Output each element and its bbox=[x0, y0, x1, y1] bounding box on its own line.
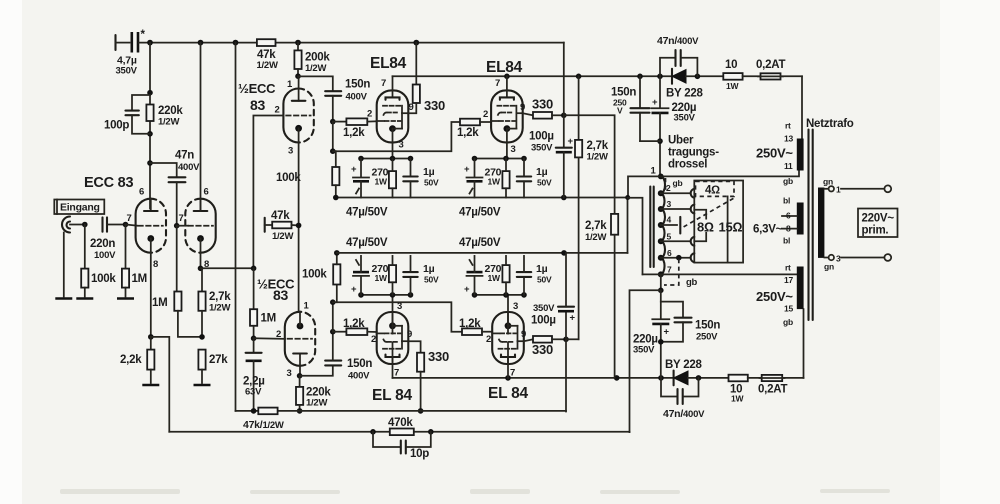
wire tap7 left to riser bbox=[643, 273, 661, 275]
svg-text:50V: 50V bbox=[424, 178, 439, 188]
wire EL84 upper2 plate lead bbox=[506, 76, 508, 90]
svg-text:11: 11 bbox=[784, 161, 793, 171]
svg-text:+: + bbox=[351, 164, 357, 175]
svg-text:330: 330 bbox=[532, 342, 553, 357]
svg-text:1M: 1M bbox=[261, 313, 276, 325]
tube EL84 lower 2 bbox=[492, 312, 524, 364]
svg-text:6,3V~: 6,3V~ bbox=[753, 224, 783, 236]
wire NFB takeoff bbox=[630, 290, 661, 432]
svg-text:BY 228: BY 228 bbox=[665, 359, 703, 371]
wire EL84 upper1 plate to B+ bbox=[392, 76, 394, 90]
wire vertical 220k branch bbox=[147, 43, 153, 209]
resistor 220k 1/2W lower bbox=[296, 376, 331, 414]
capacitor 4,7µ 350V input electrolytic bbox=[116, 29, 146, 77]
winding primary bar bbox=[818, 188, 824, 258]
wire EL84 lower2 cathode bbox=[507, 295, 509, 334]
capacitor 100p bbox=[104, 95, 150, 134]
svg-text:47n/400V: 47n/400V bbox=[657, 35, 699, 47]
svg-text:0,2AT: 0,2AT bbox=[756, 59, 785, 71]
dashed gb lead lower bbox=[664, 259, 698, 288]
svg-text:350V: 350V bbox=[533, 303, 555, 314]
tube ECC83 triode 2 bbox=[185, 199, 215, 253]
node t1 cathode / NFB bbox=[148, 334, 154, 340]
svg-text:330: 330 bbox=[424, 98, 445, 113]
wire EL84 lower2 plate lead bbox=[507, 342, 509, 378]
svg-text:2: 2 bbox=[666, 183, 671, 193]
winding 250V bottom bar bbox=[797, 267, 804, 310]
wire EL84 upper1 cathode bbox=[392, 142, 394, 158]
node 2,2µ on rail bbox=[251, 408, 257, 414]
resistor 2,7k 1/2W lower chain bbox=[585, 214, 618, 378]
svg-text:2,7k: 2,7k bbox=[585, 220, 607, 232]
input jack bbox=[62, 217, 85, 297]
tube EL84 upper 2 bbox=[491, 90, 523, 142]
svg-text:250V~: 250V~ bbox=[756, 146, 793, 161]
svg-text:47µ/50V: 47µ/50V bbox=[459, 237, 501, 249]
svg-text:gb: gb bbox=[673, 178, 683, 188]
cathode network upper 2 bbox=[467, 156, 532, 198]
wire t2 plate to rail bbox=[200, 43, 202, 211]
svg-text:1W: 1W bbox=[488, 273, 501, 283]
svg-text:1W: 1W bbox=[731, 394, 744, 404]
wire B+ lower line bbox=[393, 375, 674, 381]
svg-text:ECC 83: ECC 83 bbox=[84, 175, 133, 191]
capacitor 2,2µ 63V bbox=[243, 338, 265, 411]
resistor 2,2k bbox=[120, 337, 154, 383]
capacitor 150n 400V upper coupling bbox=[325, 79, 370, 122]
svg-text:150n: 150n bbox=[695, 320, 720, 332]
wire NFB from t1 cathode bbox=[151, 337, 170, 432]
node grid chain bbox=[251, 266, 257, 272]
svg-text:rt: rt bbox=[785, 121, 791, 131]
dashed tap selector line bbox=[684, 198, 734, 227]
resistor 1M lower splitter grid bbox=[250, 268, 276, 338]
svg-text:10: 10 bbox=[725, 59, 737, 71]
diode BY228 upper bbox=[666, 69, 723, 100]
svg-text:150n: 150n bbox=[347, 358, 372, 370]
svg-text:6: 6 bbox=[786, 211, 791, 221]
svg-text:9: 9 bbox=[407, 329, 412, 340]
cathode network lower 1 bbox=[353, 256, 418, 298]
svg-text:400V: 400V bbox=[348, 371, 370, 382]
labels 6,3V winding bbox=[753, 196, 791, 246]
svg-text:2: 2 bbox=[367, 109, 372, 120]
svg-text:6: 6 bbox=[204, 187, 209, 198]
svg-text:1,2k: 1,2k bbox=[459, 318, 481, 330]
svg-text:330: 330 bbox=[532, 97, 553, 112]
resistor 200k 1/2W bbox=[294, 43, 330, 77]
resistor 1M t2 grid leak bbox=[152, 226, 202, 337]
4 ohm dashed box bbox=[696, 181, 735, 196]
resistor 47k 1/2W top rail bbox=[257, 39, 278, 71]
diode BY228 lower bbox=[665, 359, 729, 385]
svg-text:7: 7 bbox=[127, 213, 132, 224]
wire to mains transformer top bbox=[801, 76, 803, 138]
svg-text:+: + bbox=[464, 164, 470, 175]
svg-text:Uber: Uber bbox=[668, 135, 694, 147]
node splitter plate bbox=[295, 73, 301, 79]
wire lower splitter grid stub bbox=[254, 337, 285, 340]
svg-text:47µ/50V: 47µ/50V bbox=[346, 207, 388, 219]
svg-text:2: 2 bbox=[275, 105, 280, 116]
svg-text:1µ: 1µ bbox=[536, 263, 548, 275]
svg-text:47µ/50V: 47µ/50V bbox=[346, 237, 388, 249]
resistor 1,2k EL84 lower 2 bbox=[459, 318, 492, 335]
svg-text:15Ω: 15Ω bbox=[719, 220, 743, 235]
wire 150n feed bbox=[298, 76, 333, 90]
svg-text:+: + bbox=[664, 327, 670, 338]
svg-text:3: 3 bbox=[511, 144, 516, 155]
transformer primary winding bbox=[661, 176, 665, 274]
svg-text:50V: 50V bbox=[537, 178, 552, 188]
svg-text:350V: 350V bbox=[633, 345, 655, 356]
svg-text:2: 2 bbox=[486, 334, 491, 345]
svg-text:gb: gb bbox=[783, 176, 793, 186]
resistor 330 screen upper2 bbox=[523, 97, 567, 119]
wire EL84 upper2 cathode bbox=[506, 142, 508, 158]
resistor 10 1W lower bbox=[729, 375, 762, 404]
svg-text:1µ: 1µ bbox=[423, 263, 435, 275]
svg-text:7: 7 bbox=[495, 78, 500, 89]
ground 2,2k bbox=[142, 384, 159, 386]
node filter junction bbox=[640, 138, 663, 144]
svg-text:7: 7 bbox=[667, 265, 672, 275]
svg-text:gn: gn bbox=[824, 262, 834, 272]
resistor 1M grid bbox=[122, 225, 147, 297]
svg-text:220V~: 220V~ bbox=[862, 213, 895, 225]
wire splitter upper grid bbox=[253, 116, 283, 269]
resistor 100k lower grid leak bbox=[302, 250, 340, 302]
svg-text:prim.: prim. bbox=[862, 225, 889, 237]
svg-text:1/2W: 1/2W bbox=[272, 231, 293, 242]
secondary inner divider bbox=[727, 196, 729, 262]
tube 1/2ECC83 upper splitter bbox=[283, 89, 313, 143]
svg-text:47µ/50V: 47µ/50V bbox=[459, 207, 501, 219]
labels 250V bottom winding bbox=[756, 263, 793, 328]
label 1µ 50V bbox=[536, 263, 552, 285]
svg-text:1/2W: 1/2W bbox=[257, 60, 278, 71]
node 1,2k upper bbox=[330, 119, 336, 125]
svg-text:470k: 470k bbox=[388, 417, 413, 429]
label 270 1W bbox=[485, 263, 502, 283]
fuse 0,2AT upper bbox=[756, 59, 802, 80]
svg-text:EL 84: EL 84 bbox=[488, 385, 528, 402]
capacitor 10p bypass bbox=[373, 432, 431, 460]
svg-text:250V~: 250V~ bbox=[756, 289, 793, 304]
svg-text:3: 3 bbox=[399, 140, 404, 151]
svg-text:5: 5 bbox=[667, 232, 672, 242]
svg-text:1,2k: 1,2k bbox=[457, 127, 479, 139]
svg-text:1W: 1W bbox=[488, 177, 501, 187]
svg-text:3: 3 bbox=[287, 368, 292, 379]
svg-text:4: 4 bbox=[667, 215, 672, 225]
wire tap7 to mains winding 17 bbox=[661, 273, 801, 275]
svg-text:rt: rt bbox=[785, 263, 791, 273]
svg-text:400V: 400V bbox=[346, 92, 368, 103]
svg-text:10p: 10p bbox=[410, 448, 429, 460]
svg-text:1,2k: 1,2k bbox=[343, 127, 365, 139]
label 1µ 50V bbox=[423, 166, 439, 188]
wire ground bus lower bbox=[337, 250, 628, 256]
mains transformer core bbox=[809, 130, 813, 321]
capacitor 220µ 350V lower bbox=[633, 290, 670, 378]
label Ubertragungsdrossel bbox=[668, 135, 719, 171]
capacitor 100µ 350V upper bbox=[529, 131, 574, 198]
wire tap7 down bbox=[658, 274, 664, 293]
wire screen node to 2,7k chain bbox=[564, 115, 615, 214]
svg-text:83: 83 bbox=[273, 287, 289, 303]
svg-text:6: 6 bbox=[667, 248, 672, 258]
svg-text:2,7k: 2,7k bbox=[209, 291, 231, 303]
svg-text:400V: 400V bbox=[178, 162, 200, 173]
tap wires and speaker terminals bbox=[661, 189, 695, 262]
tube 1/2ECC83 lower splitter bbox=[285, 312, 315, 366]
wire ground-seg to tap7 riser bbox=[628, 198, 643, 275]
wire node1 to mains winding 11 bbox=[661, 171, 799, 177]
svg-text:drossel: drossel bbox=[668, 159, 707, 171]
terminal 1 primary bbox=[823, 177, 891, 195]
svg-text:8: 8 bbox=[786, 224, 791, 234]
svg-text:100µ: 100µ bbox=[531, 315, 556, 327]
wire ground bus upper bbox=[333, 195, 628, 201]
wire EL84 lower1 cathode bbox=[392, 295, 394, 334]
8 ohm bracket bbox=[694, 210, 706, 241]
resistor 330 screen lower2 bbox=[524, 336, 569, 357]
resistor 2,7k 1/2W t2 cathode bbox=[198, 268, 231, 337]
svg-text:50V: 50V bbox=[424, 275, 439, 285]
svg-text:gn: gn bbox=[823, 177, 833, 187]
svg-text:BY 228: BY 228 bbox=[666, 88, 704, 100]
label 270 1W bbox=[372, 167, 389, 187]
label 270 1W bbox=[485, 167, 502, 187]
svg-text:EL 84: EL 84 bbox=[372, 387, 412, 404]
svg-text:9: 9 bbox=[520, 102, 525, 113]
wire splitter plate lead bbox=[298, 76, 300, 88]
svg-text:350V: 350V bbox=[116, 66, 138, 77]
label Eingang box bbox=[54, 200, 104, 215]
svg-text:63V: 63V bbox=[245, 387, 262, 398]
svg-text:½ECC: ½ECC bbox=[238, 81, 276, 96]
resistor 27k bbox=[198, 350, 228, 383]
winding 6,3V bar bbox=[797, 203, 804, 235]
resistor 1,2k EL84 upper 2 bbox=[457, 119, 491, 139]
ground 1M bbox=[117, 298, 134, 300]
resistor 1,2k EL84 lower 1 bbox=[333, 318, 377, 335]
resistor 47k 1/2W NFB injection bbox=[265, 210, 302, 242]
wire grid line lower bbox=[330, 299, 462, 331]
resistor 220k 1/2W bbox=[146, 105, 183, 128]
label 220V~ prim. box bbox=[858, 209, 898, 238]
svg-text:100k: 100k bbox=[91, 273, 116, 285]
svg-text:1/2W: 1/2W bbox=[209, 303, 230, 314]
svg-text:Netztrafo: Netztrafo bbox=[806, 118, 854, 130]
svg-text:EL84: EL84 bbox=[370, 55, 407, 72]
svg-text:+: + bbox=[570, 313, 576, 324]
svg-text:7: 7 bbox=[394, 368, 399, 379]
svg-text:220k: 220k bbox=[158, 105, 183, 117]
ground 100k bbox=[76, 298, 93, 300]
label 1/2ECC 83 upper bbox=[238, 81, 276, 113]
svg-text:tragungs-: tragungs- bbox=[668, 147, 719, 159]
svg-text:100p: 100p bbox=[104, 120, 129, 132]
node lower splitter plate bbox=[297, 366, 303, 379]
winding 250V top bar bbox=[797, 139, 804, 171]
svg-text:3: 3 bbox=[397, 301, 402, 312]
svg-text:0,2AT: 0,2AT bbox=[758, 384, 787, 396]
labels 250V top winding bbox=[756, 121, 793, 187]
cathode network upper 1 bbox=[353, 156, 418, 198]
svg-text:1/2W: 1/2W bbox=[585, 232, 606, 243]
label 1µ 50V bbox=[536, 166, 552, 188]
node 1,2k lower bbox=[330, 329, 336, 335]
svg-text:V: V bbox=[617, 106, 623, 116]
svg-text:1M: 1M bbox=[132, 273, 147, 285]
svg-text:100k: 100k bbox=[302, 269, 327, 281]
svg-text:350V: 350V bbox=[531, 143, 553, 154]
svg-text:7: 7 bbox=[179, 213, 184, 224]
svg-text:1/2W: 1/2W bbox=[306, 398, 327, 409]
svg-text:3: 3 bbox=[288, 146, 293, 157]
wire screen rail corner down bbox=[563, 43, 565, 148]
svg-text:2,7k: 2,7k bbox=[587, 140, 609, 152]
svg-text:47k: 47k bbox=[271, 210, 290, 222]
capacitor 220µ 350V upper bbox=[652, 76, 697, 176]
svg-text:2: 2 bbox=[483, 109, 488, 120]
node jog bbox=[625, 195, 630, 200]
svg-text:100k: 100k bbox=[276, 172, 301, 184]
svg-text:3: 3 bbox=[667, 199, 672, 209]
node grid t1 bbox=[123, 222, 129, 228]
svg-text:2,2k: 2,2k bbox=[120, 354, 142, 366]
resistor 330 screen upper1 bbox=[408, 43, 445, 114]
svg-text:47k/1/2W: 47k/1/2W bbox=[243, 419, 284, 431]
svg-text:gb: gb bbox=[783, 317, 793, 327]
node input junction bbox=[82, 222, 88, 228]
tube EL84 lower 1 bbox=[377, 312, 409, 364]
resistor 2,7k 1/2W upper chain bbox=[566, 76, 609, 339]
svg-text:1µ: 1µ bbox=[536, 166, 548, 178]
svg-text:1W: 1W bbox=[375, 273, 388, 283]
node t1 grid / 47n bbox=[174, 223, 180, 229]
capacitor 47n 400V coupling bbox=[150, 150, 200, 226]
svg-text:3: 3 bbox=[836, 254, 841, 264]
capacitor 220n 100V bbox=[90, 217, 126, 261]
wire to mains transformer bottom bbox=[803, 309, 805, 378]
wire node1 left jog down bbox=[628, 176, 661, 197]
node lower splitter grid bbox=[251, 336, 257, 342]
cathode network lower 2 bbox=[467, 256, 532, 298]
taps 2-7 dots bbox=[658, 190, 664, 277]
resistor 100k grid leak bbox=[81, 225, 116, 297]
wire lower screen rail bbox=[236, 410, 567, 412]
ground 27k bbox=[194, 384, 211, 386]
wire top screen rail bbox=[139, 40, 564, 46]
node 1 primary top bbox=[651, 166, 664, 180]
label 1µ 50V bbox=[423, 263, 439, 285]
capacitor 100µ 350V lower bbox=[531, 253, 576, 339]
svg-text:gb: gb bbox=[686, 277, 698, 288]
svg-text:1/2W: 1/2W bbox=[587, 152, 608, 163]
wire B+ upper line bbox=[393, 74, 673, 80]
tube ECC83 triode 1 bbox=[136, 199, 166, 253]
wire grid line upper bbox=[330, 122, 460, 154]
capacitor 150n 250V lower bbox=[658, 302, 720, 345]
svg-text:1,2k: 1,2k bbox=[343, 318, 365, 330]
wire t2 cathode down bbox=[198, 253, 254, 271]
svg-text:47n/400V: 47n/400V bbox=[663, 408, 705, 420]
wire NFB 470k line bbox=[169, 429, 629, 435]
svg-text:47n: 47n bbox=[175, 150, 194, 162]
svg-text:1/2W: 1/2W bbox=[158, 117, 179, 128]
label 270 1W bbox=[372, 263, 389, 283]
svg-text:9: 9 bbox=[521, 329, 526, 340]
node 27k top bbox=[199, 334, 205, 340]
svg-text:1/2W: 1/2W bbox=[305, 63, 326, 74]
secondary outer box bbox=[694, 181, 743, 263]
svg-text:250V: 250V bbox=[696, 332, 718, 343]
svg-text:330: 330 bbox=[428, 349, 449, 364]
svg-text:50V: 50V bbox=[537, 275, 552, 285]
svg-text:15: 15 bbox=[784, 304, 793, 314]
svg-text:7: 7 bbox=[510, 368, 515, 379]
wire EL84 lower1 plate to B+ bbox=[392, 342, 394, 378]
tube EL84 upper 1 bbox=[377, 90, 409, 142]
svg-text:bl: bl bbox=[783, 196, 790, 206]
terminal 3 primary bbox=[824, 254, 891, 272]
wire 47n to t2 grid bbox=[177, 225, 188, 227]
svg-text:6: 6 bbox=[139, 187, 144, 198]
resistor 470k bbox=[388, 417, 414, 435]
svg-text:bl: bl bbox=[783, 236, 790, 246]
ground input jack bbox=[55, 298, 72, 300]
capacitor 150n 250V upper bbox=[611, 76, 650, 141]
svg-text:17: 17 bbox=[784, 275, 793, 285]
svg-text:3: 3 bbox=[513, 301, 518, 312]
label 1/2ECC 83 lower bbox=[257, 277, 295, 304]
wire left bus vertical bbox=[235, 43, 237, 411]
capacitor 47n/400V lower snubber bbox=[661, 378, 705, 420]
dashed gb lead upper bbox=[665, 178, 667, 191]
svg-text:EL84: EL84 bbox=[486, 59, 523, 76]
resistor 330 screen lower1 bbox=[408, 341, 449, 414]
svg-text:2: 2 bbox=[371, 334, 376, 345]
resistor 1,2k EL84 upper 1 bbox=[333, 118, 377, 139]
wire grid stub t1 bbox=[126, 225, 138, 226]
wires 6,3V pins bbox=[782, 216, 797, 229]
faint scan artifacts bottom bbox=[60, 489, 890, 494]
wire t1 cathode down bbox=[150, 253, 152, 337]
svg-text:350V: 350V bbox=[674, 113, 696, 124]
svg-text:27k: 27k bbox=[209, 354, 228, 366]
svg-text:1M: 1M bbox=[152, 297, 167, 309]
svg-text:+: + bbox=[568, 136, 574, 147]
svg-text:+: + bbox=[464, 284, 470, 295]
resistor 47k/1/2W lower rail bbox=[243, 408, 284, 431]
wire splitter shared cathode line bbox=[298, 143, 300, 312]
svg-text:200k: 200k bbox=[305, 52, 330, 64]
resistor 10 1W upper bbox=[723, 59, 760, 91]
svg-text:150n: 150n bbox=[345, 79, 370, 91]
svg-text:1µ: 1µ bbox=[423, 166, 435, 178]
svg-text:+: + bbox=[652, 97, 658, 108]
svg-text:8: 8 bbox=[153, 259, 158, 270]
svg-text:100µ: 100µ bbox=[529, 131, 554, 143]
svg-text:7: 7 bbox=[381, 78, 386, 89]
svg-text:+: + bbox=[351, 284, 357, 295]
fuse 0,2AT lower bbox=[758, 375, 804, 396]
wire ground bus jog bbox=[627, 198, 629, 253]
svg-text:4Ω: 4Ω bbox=[705, 185, 720, 197]
